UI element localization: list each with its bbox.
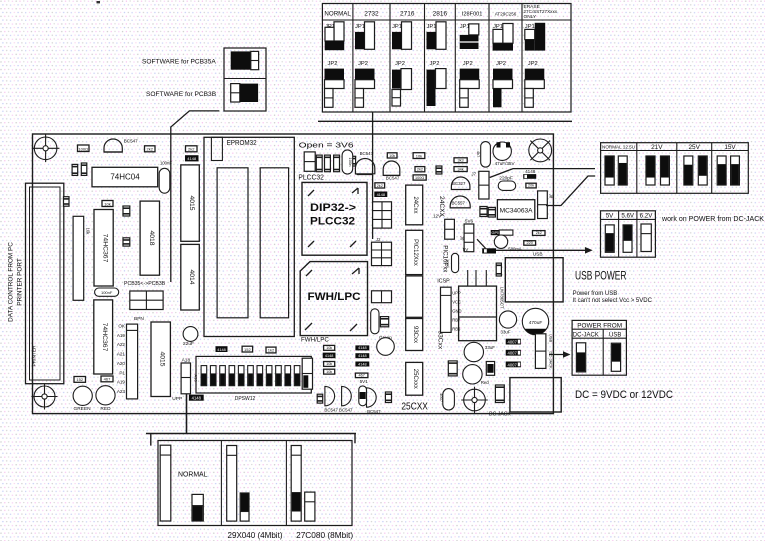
wire tick xyxy=(357,174,373,176)
mounting hole top-right xyxy=(529,139,552,162)
resistor 10k vertical xyxy=(123,238,130,246)
svg-text:10k: 10k xyxy=(416,153,422,158)
capacitor 470uF xyxy=(522,308,548,334)
svg-text:20k: 20k xyxy=(528,184,534,188)
jumper JP1 (NORMAL): bottom pair shorted xyxy=(325,22,345,50)
svg-text:93Cxx: 93Cxx xyxy=(437,330,444,349)
svg-text:Red: Red xyxy=(481,380,490,385)
IC 25Cxxx xyxy=(406,362,423,395)
mounting hole bottom-left xyxy=(32,384,58,410)
resistor 467 xyxy=(101,376,113,382)
capacitor 100n capsule (near ICSP) xyxy=(446,253,459,272)
jumper (2-cell) near Open label xyxy=(304,152,315,171)
resistor 2k2 vertical xyxy=(380,317,388,327)
jumper block J2 (2x3) xyxy=(373,202,392,228)
diode 4148 badge xyxy=(189,395,204,401)
svg-text:DC = 9VDC or 12VDC: DC = 9VDC or 12VDC xyxy=(575,389,673,401)
arrow to POWER FROM table xyxy=(549,351,571,358)
resistor 2k2 (second) xyxy=(186,146,198,152)
IC PIC12Xxx xyxy=(406,230,423,274)
resistor 2k2 xyxy=(145,146,156,152)
svg-text:I28F001: I28F001 xyxy=(462,12,483,18)
svg-text:ICSP: ICSP xyxy=(437,279,450,285)
svg-text:JP2: JP2 xyxy=(430,61,440,67)
svg-text:JP2: JP2 xyxy=(463,61,473,67)
svg-text:10k: 10k xyxy=(326,370,332,374)
svg-text:JP2: JP2 xyxy=(496,61,506,67)
USB connector xyxy=(505,258,563,302)
transistor BC547 top-left xyxy=(104,139,122,152)
capacitor 47uF/35V xyxy=(493,142,515,166)
svg-text:JP2: JP2 xyxy=(395,61,405,67)
jumpers 15V xyxy=(717,156,726,185)
svg-text:PRINTER PORT: PRINTER PORT xyxy=(17,258,24,306)
jumper block J2 lower (2x3) xyxy=(372,242,392,265)
svg-text:J8: J8 xyxy=(549,194,554,199)
svg-text:JP2: JP2 xyxy=(358,61,368,67)
svg-text:100nF: 100nF xyxy=(101,290,113,295)
IC 74HC367 (upper) xyxy=(94,210,113,287)
wire to voltage table (straight) xyxy=(490,169,595,178)
IC 93Cxx xyxy=(406,319,423,351)
svg-text:JP2: JP2 xyxy=(328,61,338,67)
IC 74HC367 (lower) xyxy=(94,300,113,374)
transistor BC557 xyxy=(450,196,470,208)
resistor 10k horizontal xyxy=(102,201,113,207)
svg-text:4148: 4148 xyxy=(358,346,366,350)
PCB board outline xyxy=(33,134,554,414)
resistor 2k2 (right) xyxy=(415,167,425,172)
jumper JP2 (2716) xyxy=(392,61,412,106)
svg-text:RB7: RB7 xyxy=(452,318,461,323)
svg-text:FWH/LPC: FWH/LPC xyxy=(308,291,361,303)
jumper JP1 (2816): left pair shorted xyxy=(427,22,447,50)
jumper JP2 (ERASE) xyxy=(525,61,545,107)
svg-text:JP1: JP1 xyxy=(427,24,437,30)
svg-text:100Ω: 100Ω xyxy=(415,176,424,180)
ICSP connector xyxy=(441,287,452,332)
svg-text:BC557: BC557 xyxy=(452,201,466,206)
svg-text:15V: 15V xyxy=(724,144,736,151)
resistor 10k vertical (left of transistors) xyxy=(317,394,323,403)
DIP switch DPSW12 xyxy=(196,356,311,393)
svg-text:10k: 10k xyxy=(104,201,110,206)
svg-text:21V: 21V xyxy=(651,144,663,151)
resistor 7k vertical xyxy=(436,166,442,174)
jumper strip BPN (address select) xyxy=(127,324,138,399)
resistor 1k2 vertical (right of transistors) xyxy=(385,392,391,403)
svg-text:BC547: BC547 xyxy=(124,139,138,144)
jumper A18 xyxy=(181,363,198,394)
svg-text:47uF/35V: 47uF/35V xyxy=(495,161,516,166)
svg-text:2k2: 2k2 xyxy=(377,184,383,188)
jumper short (NORMAL) xyxy=(192,494,203,521)
socket DIP32->PLCC32 xyxy=(302,182,367,255)
resistor 152 xyxy=(74,377,86,383)
jumper JP2 (AT29C256) xyxy=(493,61,513,107)
svg-text:NORMAL: NORMAL xyxy=(178,470,208,479)
svg-text:2k2: 2k2 xyxy=(536,231,542,235)
jumper J8 xyxy=(538,191,554,219)
svg-text:USB: USB xyxy=(609,332,621,338)
svg-text:Open = 3V6: Open = 3V6 xyxy=(299,141,354,150)
svg-text:74HC04: 74HC04 xyxy=(110,173,140,182)
svg-text:74HC367: 74HC367 xyxy=(102,234,109,263)
svg-text:DATA CONTROL FROM PC: DATA CONTROL FROM PC xyxy=(8,242,15,322)
svg-text:PRINTER: PRINTER xyxy=(32,345,38,367)
jumper POWER-FROM select xyxy=(535,334,546,369)
svg-text:A22: A22 xyxy=(117,342,126,347)
svg-text:It can't not select Vcc >: It can't not select Vcc > 5VDC xyxy=(573,298,653,304)
svg-text:152: 152 xyxy=(244,347,251,352)
jumper 6.2V xyxy=(641,224,651,252)
transistor BC547 bottom 3 xyxy=(367,388,377,407)
mounting hole top-left xyxy=(32,135,60,163)
jumper J7 xyxy=(479,171,489,199)
jumper J6 (3 cells) xyxy=(459,224,473,252)
diode 4148 xyxy=(185,155,199,161)
svg-text:GND: GND xyxy=(452,309,461,314)
wire to voltage table (elbow from J8) xyxy=(546,176,595,206)
jumper block (2x1) below FWH xyxy=(372,291,392,303)
svg-text:BPN: BPN xyxy=(134,316,144,322)
resistor 220 xyxy=(524,241,536,246)
jumper tall (27C080) with black mid xyxy=(291,446,301,522)
jumper vertical with black cell (left edge of FWH area) xyxy=(302,358,312,389)
jumper JP2 (2732) xyxy=(355,61,375,107)
column header ERASE 27C/SST27Xxxx ONLY xyxy=(524,4,558,20)
svg-text:467: 467 xyxy=(104,377,111,382)
svg-text:27C080 (8Mbit): 27C080 (8Mbit) xyxy=(296,531,353,540)
svg-text:4007: 4007 xyxy=(508,340,518,345)
svg-text:4148: 4148 xyxy=(192,396,202,401)
diode 4148 (black with band) xyxy=(523,174,536,179)
svg-text:2732: 2732 xyxy=(364,11,379,18)
resistor 4148 below socket xyxy=(216,346,228,352)
scan speck top-right corner xyxy=(97,1,101,3)
ICSP pin labels xyxy=(452,291,461,332)
svg-text:JP2: JP2 xyxy=(528,61,538,67)
resistor 10k xyxy=(387,153,397,158)
VPP voltage table xyxy=(601,143,749,194)
capacitor 33uF (lower) xyxy=(464,342,495,361)
svg-text:34k: 34k xyxy=(458,167,464,171)
svg-text:USB POWER: USB POWER xyxy=(575,270,627,282)
jumper JP2 (NORMAL) xyxy=(325,61,345,107)
svg-text:BC547 BC547: BC547 BC547 xyxy=(324,407,353,412)
printer port connector xyxy=(26,183,64,384)
jumper JP1 (2716): left pair shorted xyxy=(392,22,412,50)
wires from PIC to top xyxy=(468,270,487,286)
svg-text:DC-JACK: DC-JACK xyxy=(573,332,599,338)
IC 24Cxx xyxy=(406,185,423,225)
svg-text:JP1: JP1 xyxy=(392,24,402,30)
svg-text:PLCC32: PLCC32 xyxy=(310,216,355,228)
svg-text:FWH/LPC: FWH/LPC xyxy=(301,337,329,344)
resistor 2k2 xyxy=(533,231,546,236)
jumpers 21V xyxy=(646,156,655,185)
svg-text:100nF: 100nF xyxy=(160,160,172,165)
transistor BC547 bottom 1 xyxy=(325,386,335,405)
svg-text:SOFTWARE for PCB35A: SOFTWARE for PCB35A xyxy=(142,59,216,66)
svg-text:5V6: 5V6 xyxy=(465,219,474,224)
svg-text:5V: 5V xyxy=(463,247,470,252)
table underline xyxy=(318,120,572,122)
capacitor 100n capsule xyxy=(342,150,353,174)
svg-text:6.2V: 6.2V xyxy=(640,213,654,220)
svg-text:4148: 4148 xyxy=(187,156,197,161)
svg-text:GREEN: GREEN xyxy=(73,406,91,412)
svg-text:25CXX: 25CXX xyxy=(401,402,428,413)
svg-text:J2: J2 xyxy=(376,237,381,242)
diode 4007 x3 xyxy=(506,339,521,368)
svg-text:100n: 100n xyxy=(348,158,353,167)
LED GREEN xyxy=(73,386,92,412)
svg-text:4148: 4148 xyxy=(358,354,366,358)
svg-text:25Cxxx: 25Cxxx xyxy=(412,369,418,389)
svg-text:4015: 4015 xyxy=(188,195,195,210)
svg-text:10k: 10k xyxy=(326,346,332,350)
transistor BC327 xyxy=(451,177,470,190)
wire from J6 to diode xyxy=(477,239,486,248)
svg-text:33uF: 33uF xyxy=(485,345,495,350)
mounting hole bottom-right xyxy=(461,387,488,414)
transistor BC547 bottom 2 xyxy=(342,386,352,405)
LED Red xyxy=(463,365,490,385)
svg-text:VCC: VCC xyxy=(452,300,461,305)
svg-text:2k2: 2k2 xyxy=(188,147,195,152)
jumper 5.6V xyxy=(623,225,632,252)
resistor array 10k (tall) xyxy=(73,216,90,300)
svg-text:4148: 4148 xyxy=(525,169,536,174)
capacitor 100nF (vertical capsule) xyxy=(159,168,170,193)
resistor 15k vertical xyxy=(480,207,487,217)
jumper JP2 (I28F001) xyxy=(460,61,480,107)
svg-text:74HC367: 74HC367 xyxy=(101,323,108,352)
IC PIC (main square) xyxy=(459,286,497,341)
resistor 2k2 near J2 xyxy=(375,183,385,188)
ROM size table box xyxy=(158,441,352,526)
svg-text:PCB35<->PCB3B: PCB35<->PCB3B xyxy=(124,281,166,287)
svg-text:10k: 10k xyxy=(86,228,91,236)
svg-text:AT29C256: AT29C256 xyxy=(495,12,517,17)
svg-text:PIC12Xxx: PIC12Xxx xyxy=(412,239,418,266)
svg-text:24Cxx: 24Cxx xyxy=(412,196,418,213)
jumper JP1 (ERASE 27C/SST27Xxxx): right column + bottom shorted xyxy=(525,23,545,51)
jumper JP1 (AT29C256): bottom pair shorted xyxy=(493,24,513,51)
transistor 500mA (TO92 circle) xyxy=(494,235,522,251)
svg-text:33uF: 33uF xyxy=(501,329,511,334)
svg-text:NORMAL 12.5U: NORMAL 12.5U xyxy=(602,145,635,150)
svg-text:4014: 4014 xyxy=(188,269,195,284)
diode ladder 4148 x3 + 467 xyxy=(355,345,369,377)
resistor 1k xyxy=(64,197,70,207)
svg-text:4k7: 4k7 xyxy=(476,151,481,158)
resistor 3k vertical xyxy=(488,207,495,217)
IC U 74HC04 xyxy=(92,167,158,187)
svg-text:J7: J7 xyxy=(471,171,476,176)
resistor 100k dark xyxy=(486,362,494,376)
capacitor 4k7 capsule xyxy=(476,142,490,168)
jumpers 25V xyxy=(684,156,693,185)
svg-text:NORMAL: NORMAL xyxy=(324,11,351,18)
jumper short (29X040) xyxy=(240,493,249,521)
resistor 3k3 xyxy=(454,158,467,163)
svg-text:1k2: 1k2 xyxy=(268,348,275,353)
svg-text:USB: USB xyxy=(548,334,553,343)
zener diode 5V1 xyxy=(359,386,367,406)
jumper tall (NORMAL) xyxy=(160,445,171,521)
svg-text:5.6V: 5.6V xyxy=(621,213,635,220)
svg-text:A19: A19 xyxy=(117,380,126,385)
pointer wire from SOFTWARE box to board xyxy=(171,111,220,282)
jumper JP2 (2816) xyxy=(427,61,447,106)
svg-text:GP5: GP5 xyxy=(492,231,500,235)
resistor 20k xyxy=(526,183,536,188)
svg-text:4018: 4018 xyxy=(148,230,155,245)
transistor BC547 (mid) xyxy=(355,151,374,174)
svg-text:OK: OK xyxy=(118,324,126,329)
svg-text:4007: 4007 xyxy=(439,393,444,403)
svg-text:LM7805CT: LM7805CT xyxy=(500,287,505,309)
resistor 10k ladder xyxy=(323,345,336,374)
svg-text:470uF: 470uF xyxy=(529,320,543,326)
svg-text:SOFTWARE for PCB3B: SOFTWARE for PCB3B xyxy=(146,91,217,98)
jumper 12V xyxy=(445,219,455,239)
arrow to Vcc table xyxy=(496,247,593,254)
transistor BC547 (mid right) xyxy=(383,161,400,181)
svg-text:MC34063A: MC34063A xyxy=(500,208,534,215)
svg-text:A23: A23 xyxy=(117,389,126,394)
resistor 1k2 below socket xyxy=(266,347,276,353)
resistor group x4 xyxy=(316,155,355,172)
resistor 10R vertical xyxy=(496,263,501,276)
Vcc voltage table 5V/5.6V/6.2V xyxy=(601,211,656,257)
DC jack connector xyxy=(510,378,561,412)
svg-text:DIP32->: DIP32-> xyxy=(310,202,356,214)
svg-text:POWER FROM: POWER FROM xyxy=(577,322,622,329)
resistor 100k vertical (bottom) xyxy=(495,385,504,403)
svg-text:RED: RED xyxy=(100,406,111,412)
capacitor capsule (bottom left of DC jack) xyxy=(439,389,455,410)
capacitor 220pF (oval) xyxy=(498,181,516,190)
svg-text:100n: 100n xyxy=(446,259,450,267)
IC 4015 (upper) xyxy=(181,165,200,241)
svg-text:2k2: 2k2 xyxy=(147,147,154,152)
svg-text:BC547: BC547 xyxy=(386,176,400,181)
svg-text:A21: A21 xyxy=(117,352,126,357)
svg-text:ONLY: ONLY xyxy=(524,14,538,20)
svg-text:BC547: BC547 xyxy=(367,409,381,414)
svg-text:12V: 12V xyxy=(433,214,442,219)
svg-text:3k3: 3k3 xyxy=(458,159,464,163)
jumper tall (29X040) xyxy=(227,446,237,522)
LED RED xyxy=(96,386,115,412)
svg-text:A19: A19 xyxy=(117,333,126,338)
bracket from board to ROM-size table xyxy=(146,434,356,446)
diode 4148 near J2 xyxy=(374,192,387,198)
IC 4014 xyxy=(181,244,200,310)
IC MC34063A xyxy=(497,200,534,220)
jumper short (27C080) xyxy=(305,492,315,521)
svg-text:BC327: BC327 xyxy=(452,181,466,186)
capacitor 22uF xyxy=(183,327,198,348)
svg-text:DC-JACK: DC-JACK xyxy=(489,411,511,417)
svg-text:4007: 4007 xyxy=(508,362,518,367)
IC 4018 xyxy=(140,201,159,275)
svg-text:UPP: UPP xyxy=(172,396,182,402)
svg-text:P1: P1 xyxy=(119,370,125,375)
svg-text:4148: 4148 xyxy=(217,348,225,352)
svg-text:RB6: RB6 xyxy=(452,327,461,332)
svg-text:27C/SST27Xxxx: 27C/SST27Xxxx xyxy=(524,9,558,14)
jumper JP1 (2732): left pair shorted xyxy=(355,22,375,50)
resistor 10k (right) xyxy=(413,153,425,159)
POWER FROM table xyxy=(572,320,626,375)
svg-text:25V: 25V xyxy=(689,144,701,151)
svg-text:JP1: JP1 xyxy=(355,24,365,30)
svg-text:A20: A20 xyxy=(117,361,126,366)
svg-text:4015: 4015 xyxy=(159,351,166,366)
jumpers NORMAL/12.5U xyxy=(605,156,614,185)
svg-text:22uF: 22uF xyxy=(183,341,194,347)
svg-text:J6: J6 xyxy=(459,236,464,241)
svg-text:467: 467 xyxy=(358,373,364,377)
svg-text:100Ω: 100Ω xyxy=(78,146,88,151)
resistor 100k vertical xyxy=(448,361,457,376)
svg-text:USB: USB xyxy=(533,251,543,257)
svg-text:220: 220 xyxy=(527,241,533,245)
svg-text:4007: 4007 xyxy=(508,351,518,356)
svg-text:10k: 10k xyxy=(389,154,395,158)
jumper JP1 (I28F001): both pairs shorted xyxy=(460,24,479,49)
wire from UPP jumper down to ROM-size table xyxy=(186,394,188,434)
svg-text:EPROM32: EPROM32 xyxy=(227,138,257,147)
svg-text:PLCC32: PLCC32 xyxy=(298,173,324,182)
SOFTWARE select jumper box xyxy=(224,48,266,111)
resistor 100R (right) xyxy=(413,175,426,180)
svg-text:BC547: BC547 xyxy=(360,151,374,156)
badge GP5 xyxy=(491,230,513,235)
svg-text:4148: 4148 xyxy=(377,193,385,197)
socket FWH/LPC xyxy=(300,262,367,336)
svg-text:4148: 4148 xyxy=(358,362,366,366)
resistor 100R xyxy=(78,145,90,152)
jumper settings table (device types) xyxy=(322,4,571,113)
svg-text:UPP: UPP xyxy=(452,291,461,296)
svg-text:4148: 4148 xyxy=(325,354,333,358)
svg-text:Power from USB: Power from USB xyxy=(573,291,618,297)
jumper 5V xyxy=(605,225,614,252)
jumper DC-JACK xyxy=(576,343,585,372)
svg-text:2k2: 2k2 xyxy=(417,168,423,172)
resistor 34k xyxy=(454,167,467,172)
svg-text:5V1: 5V1 xyxy=(360,379,369,384)
IC spare socket xyxy=(406,276,423,317)
LED Green xyxy=(377,338,395,356)
svg-text:29X040 (4Mbit): 29X040 (4Mbit) xyxy=(228,531,283,540)
IC 4015 (lower) xyxy=(151,322,170,397)
svg-text:152: 152 xyxy=(76,377,83,382)
svg-text:5V: 5V xyxy=(606,213,614,220)
wire from device table into board (to PLCC area) xyxy=(372,112,374,239)
diode 4148 (feeds Vcc select arrow) xyxy=(482,248,496,253)
svg-text:2816: 2816 xyxy=(433,11,448,18)
svg-text:DPSW12: DPSW12 xyxy=(235,396,256,402)
socket EPROM32 xyxy=(204,137,294,336)
svg-text:work on POWER from DC-JACK: work on POWER from DC-JACK xyxy=(661,216,764,223)
jumper USB xyxy=(611,343,620,371)
